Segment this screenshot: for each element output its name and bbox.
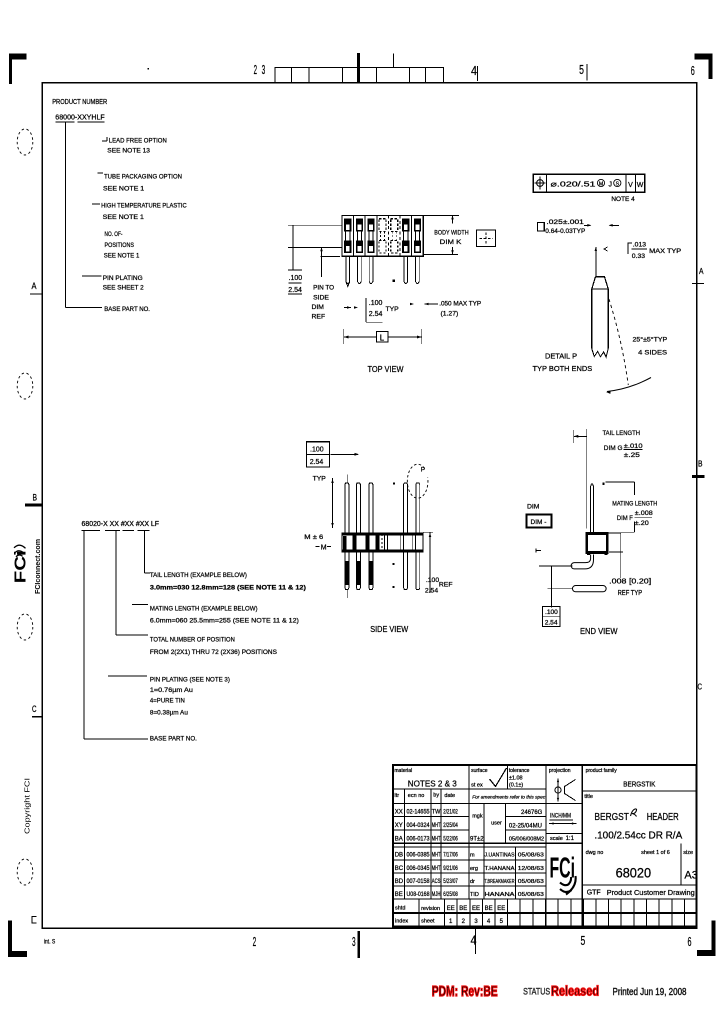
svg-text:scale: scale (550, 836, 563, 842)
svg-text:M ± 6: M ± 6 (304, 534, 323, 541)
svg-text:dr: dr (470, 879, 475, 885)
svg-text:MHT: MHT (432, 853, 441, 859)
svg-text:BERGSTIK: BERGSTIK (623, 780, 655, 789)
svg-text:m: m (470, 853, 475, 859)
svg-text:68020-X XX #XX #XX LF: 68020-X XX #XX #XX LF (82, 521, 160, 528)
svg-text:V: V (628, 182, 633, 189)
svg-text:SEE NOTE 1: SEE NOTE 1 (103, 186, 144, 193)
svg-text:by: by (433, 793, 439, 799)
svg-text:BE: BE (395, 892, 403, 898)
svg-text:T.BREAKMAKER: T.BREAKMAKER (485, 879, 515, 885)
svg-text:T.HANANA: T.HANANA (485, 866, 515, 872)
svg-text:BASE PART NO.: BASE PART NO. (104, 306, 150, 313)
svg-text:title: title (584, 794, 593, 800)
svg-text:DIM F: DIM F (617, 515, 633, 522)
svg-text:24676G: 24676G (521, 810, 543, 816)
svg-text:BODY WIDTH: BODY WIDTH (434, 230, 468, 237)
svg-text:Released: Released (551, 984, 599, 999)
svg-text:TYP: TYP (313, 476, 327, 483)
svg-text:A: A (699, 267, 704, 276)
svg-text:mgk: mgk (472, 814, 483, 820)
svg-text:.008 [0.20]: .008 [0.20] (609, 578, 651, 585)
svg-text:5: 5 (581, 933, 586, 948)
svg-text:BD: BD (395, 879, 404, 885)
svg-text:For amendments refer to this s: For amendments refer to this spec (472, 795, 546, 801)
svg-text:2.54: 2.54 (288, 287, 302, 294)
svg-text:TYP BOTH ENDS: TYP BOTH ENDS (533, 364, 593, 373)
svg-text:BC: BC (395, 866, 404, 872)
svg-text:int. S: int. S (44, 938, 56, 945)
svg-text:L: L (380, 333, 385, 342)
svg-text:END VIEW: END VIEW (580, 626, 618, 636)
svg-text:EE: EE (447, 906, 455, 912)
svg-text:product family: product family (586, 768, 618, 774)
svg-text:MAX TYP: MAX TYP (649, 248, 681, 255)
svg-text:INCH/MM: INCH/MM (550, 813, 571, 820)
svg-text:5/22/06: 5/22/06 (443, 836, 458, 842)
svg-text:BA: BA (395, 836, 403, 842)
svg-text:68000-XXYHLF: 68000-XXYHLF (55, 114, 104, 121)
svg-text:XX: XX (395, 810, 403, 816)
svg-text:DIM K: DIM K (440, 239, 462, 246)
svg-text:BASE PART NO.: BASE PART NO. (150, 736, 197, 743)
svg-text:ACS: ACS (432, 879, 441, 885)
svg-text:5/23/07: 5/23/07 (443, 879, 458, 885)
svg-text:TID: TID (470, 892, 479, 898)
svg-text:2.54: 2.54 (425, 587, 438, 594)
svg-text:STATUS: STATUS (523, 986, 550, 997)
svg-text:shtd: shtd (395, 906, 405, 912)
svg-text:P: P (421, 467, 425, 474)
svg-text:LEAD FREE OPTION: LEAD FREE OPTION (109, 137, 167, 144)
svg-text:TAIL LENGTH (EXAMPLE BELOW): TAIL LENGTH (EXAMPLE BELOW) (150, 572, 247, 579)
svg-text:004-0324: 004-0324 (407, 823, 431, 829)
svg-text:3: 3 (262, 62, 266, 77)
svg-text:TOTAL NUMBER OF POSITION: TOTAL NUMBER OF POSITION (150, 637, 235, 644)
svg-text:8=0.38µm Au: 8=0.38µm Au (150, 710, 188, 717)
svg-text:sheet: sheet (421, 919, 435, 925)
svg-text:DIM -: DIM - (531, 519, 547, 526)
svg-text:SEE NOTE 1: SEE NOTE 1 (103, 214, 144, 221)
svg-text:6/25/08: 6/25/08 (443, 892, 458, 898)
svg-text:TUBE PACKAGING OPTION: TUBE PACKAGING OPTION (104, 174, 182, 181)
svg-text:7/17/06: 7/17/06 (443, 853, 458, 859)
svg-text:ecn no: ecn no (408, 793, 425, 799)
svg-text:2.54: 2.54 (310, 459, 324, 466)
svg-text:6.0mm=060 25.5mm=255 (SEE NOTE: 6.0mm=060 25.5mm=255 (SEE NOTE 11 & 12) (150, 618, 299, 625)
svg-text:MHT: MHT (432, 823, 441, 829)
svg-text:3: 3 (352, 934, 356, 949)
svg-text:2: 2 (253, 934, 257, 949)
svg-text:3.0mm=030 12.8mm=128 (SEE NO: 3.0mm=030 12.8mm=128 (SEE NOTE 11 & 12) (150, 585, 306, 592)
svg-text:006-0173: 006-0173 (407, 836, 431, 842)
svg-text:index: index (395, 919, 408, 925)
svg-text:size: size (683, 850, 693, 856)
svg-text:FROM 2(2X1) THRU 72 (2X36) POS: FROM 2(2X1) THRU 72 (2X36) POSITIONS (150, 649, 277, 656)
svg-text:⌀.020/.51: ⌀.020/.51 (551, 179, 596, 188)
svg-text:4=PURE TIN: 4=PURE TIN (150, 698, 185, 705)
svg-text:25°±5°TYP: 25°±5°TYP (633, 336, 668, 344)
svg-text:SEE NOTE 1: SEE NOTE 1 (104, 253, 140, 260)
svg-text:.100: .100 (545, 609, 558, 616)
svg-text:MHT: MHT (432, 866, 441, 872)
svg-text:BERGST: BERGST (594, 812, 629, 823)
svg-text:PIN PLATING (SEE NOTE 3): PIN PLATING (SEE NOTE 3) (150, 677, 230, 684)
svg-text:EE: EE (497, 906, 505, 912)
svg-text:±.25: ±.25 (624, 452, 640, 459)
svg-text:date: date (444, 793, 455, 799)
svg-text:SEE SHEET 2: SEE SHEET 2 (103, 284, 144, 291)
svg-text:±.010: ±.010 (624, 443, 643, 450)
svg-text:J: J (609, 182, 613, 189)
svg-text:12/08/63: 12/08/63 (518, 866, 544, 872)
svg-text:.100: .100 (310, 447, 324, 454)
svg-text:2/25/04: 2/25/04 (443, 823, 458, 829)
svg-text:.013: .013 (633, 242, 646, 249)
svg-text:POSITIONS: POSITIONS (105, 242, 135, 249)
svg-text:EE: EE (472, 906, 480, 912)
svg-text:Copyright FCI: Copyright FCI (23, 778, 32, 834)
svg-text:DIM G: DIM G (604, 445, 623, 452)
svg-text:MATING LENGTH (EXAMPLE BELOW): MATING LENGTH (EXAMPLE BELOW) (150, 605, 258, 612)
svg-text:projection: projection (549, 768, 571, 774)
svg-text:006-0345: 006-0345 (407, 866, 431, 872)
svg-text:DETAIL P: DETAIL P (545, 351, 577, 360)
svg-text:2.54: 2.54 (545, 620, 558, 627)
svg-text:05/006/008M2: 05/006/008M2 (509, 837, 544, 843)
svg-text:(0.1±): (0.1±) (509, 783, 523, 789)
svg-text:HEADER: HEADER (647, 812, 679, 823)
svg-text:surface: surface (471, 768, 488, 774)
svg-text:C: C (32, 704, 37, 714)
svg-text:S: S (616, 182, 620, 188)
svg-text:007-0158: 007-0158 (407, 879, 431, 885)
svg-text:DB: DB (395, 853, 403, 859)
svg-text:0.64-0.03TYP: 0.64-0.03TYP (545, 228, 585, 235)
svg-text:9/21/06: 9/21/06 (443, 866, 458, 872)
svg-text:0.33: 0.33 (632, 253, 645, 260)
svg-text:6: 6 (688, 934, 692, 949)
svg-text:PIN TO: PIN TO (313, 285, 334, 292)
svg-text:02-25/04MU: 02-25/04MU (509, 823, 542, 829)
svg-text:NOTES 2 & 3: NOTES 2 & 3 (408, 779, 457, 789)
svg-text:1:1: 1:1 (566, 836, 575, 842)
svg-text:C: C (698, 683, 703, 692)
svg-text:A: A (32, 281, 37, 291)
svg-text:Printed Jun 19, 2008: Printed Jun 19, 2008 (613, 987, 687, 998)
svg-text:XY: XY (395, 823, 403, 829)
svg-text:REF: REF (439, 581, 453, 588)
svg-text:05/08/63: 05/08/63 (518, 892, 544, 898)
svg-text:PDM: Rev:BE: PDM: Rev:BE (432, 983, 498, 1000)
svg-text:.100: .100 (369, 300, 383, 307)
svg-text:02-14655: 02-14655 (407, 810, 431, 816)
svg-text:REF TYP: REF TYP (618, 590, 643, 597)
svg-text:TAIL LENGTH: TAIL LENGTH (603, 430, 641, 437)
svg-text:MJH: MJH (432, 892, 441, 898)
svg-text:2: 2 (254, 62, 257, 77)
svg-text:sheet 1 of 6: sheet 1 of 6 (641, 850, 670, 856)
svg-text:.025±.001: .025±.001 (546, 219, 584, 226)
svg-text:(1.27): (1.27) (441, 310, 459, 317)
svg-text:006-0385: 006-0385 (407, 853, 431, 859)
svg-text:6: 6 (691, 63, 695, 78)
svg-text:±.008: ±.008 (635, 510, 653, 517)
svg-text:NO. OF-: NO. OF- (105, 231, 123, 238)
svg-text:±.20: ±.20 (635, 520, 649, 527)
svg-text:A3: A3 (684, 870, 697, 882)
svg-text:user: user (491, 821, 502, 827)
svg-text:tolerance: tolerance (509, 768, 530, 774)
svg-text:DIM: DIM (312, 304, 325, 311)
svg-text:±1.08: ±1.08 (509, 775, 523, 781)
svg-text:HANANA: HANANA (485, 892, 515, 898)
svg-text:1=0.76µm Au: 1=0.76µm Au (150, 687, 193, 694)
svg-text:erg: erg (470, 866, 478, 872)
svg-text:9T±2: 9T±2 (470, 837, 484, 843)
svg-text:dwg no: dwg no (586, 850, 604, 856)
svg-text:HIGH TEMPERATURE PLASTIC: HIGH TEMPERATURE PLASTIC (101, 203, 187, 210)
svg-text:TOP VIEW: TOP VIEW (368, 364, 405, 374)
svg-text:.100/2.54cc DR R/A: .100/2.54cc DR R/A (594, 830, 682, 841)
svg-text:2.54: 2.54 (369, 311, 383, 318)
svg-text:PRODUCT NUMBER: PRODUCT NUMBER (52, 99, 107, 106)
svg-text:U08-0168: U08-0168 (407, 892, 431, 898)
svg-text:GTF: GTF (587, 889, 601, 896)
svg-text:2/21/02: 2/21/02 (443, 810, 458, 816)
svg-text:.100: .100 (289, 275, 303, 282)
svg-text:PIN PLATING: PIN PLATING (103, 275, 143, 282)
svg-text:4: 4 (471, 63, 477, 78)
svg-text:MATING LENGTH: MATING LENGTH (612, 501, 657, 508)
svg-text:SIDE VIEW: SIDE VIEW (370, 624, 409, 634)
svg-text:W: W (637, 182, 644, 189)
svg-text:B: B (698, 460, 703, 469)
svg-text:TW: TW (432, 810, 441, 816)
svg-text:M: M (599, 182, 603, 188)
svg-text:68020: 68020 (616, 865, 652, 881)
svg-text:MHT: MHT (432, 836, 441, 842)
svg-text:revision: revision (421, 906, 440, 912)
svg-text:NOTE 4: NOTE 4 (611, 196, 635, 203)
svg-text:ltr: ltr (395, 793, 400, 799)
svg-text:4 SIDES: 4 SIDES (638, 350, 668, 357)
svg-text:SEE NOTE 13: SEE NOTE 13 (107, 148, 150, 155)
svg-text:st ex: st ex (471, 783, 483, 789)
svg-text:05/08/63: 05/08/63 (518, 879, 544, 885)
svg-text:.100: .100 (426, 577, 439, 584)
svg-text:TYP: TYP (386, 306, 400, 313)
svg-text:REF: REF (312, 314, 326, 321)
svg-text:M: M (321, 545, 327, 552)
svg-text:B: B (33, 493, 38, 503)
svg-text:05/08/63: 05/08/63 (518, 853, 544, 859)
svg-text:material: material (394, 768, 412, 774)
svg-text:BE: BE (459, 906, 467, 912)
svg-text:Product Customer Drawing: Product Customer Drawing (607, 888, 695, 897)
svg-text:.050 MAX TYP: .050 MAX TYP (439, 300, 481, 307)
svg-text:BE: BE (485, 906, 493, 912)
svg-text:FCIconnect.com: FCIconnect.com (35, 539, 42, 594)
svg-text:DIM: DIM (527, 503, 540, 510)
svg-text:SIDE: SIDE (313, 294, 329, 301)
svg-text:J.UANTINAS: J.UANTINAS (485, 853, 515, 859)
svg-text:5: 5 (579, 62, 584, 77)
